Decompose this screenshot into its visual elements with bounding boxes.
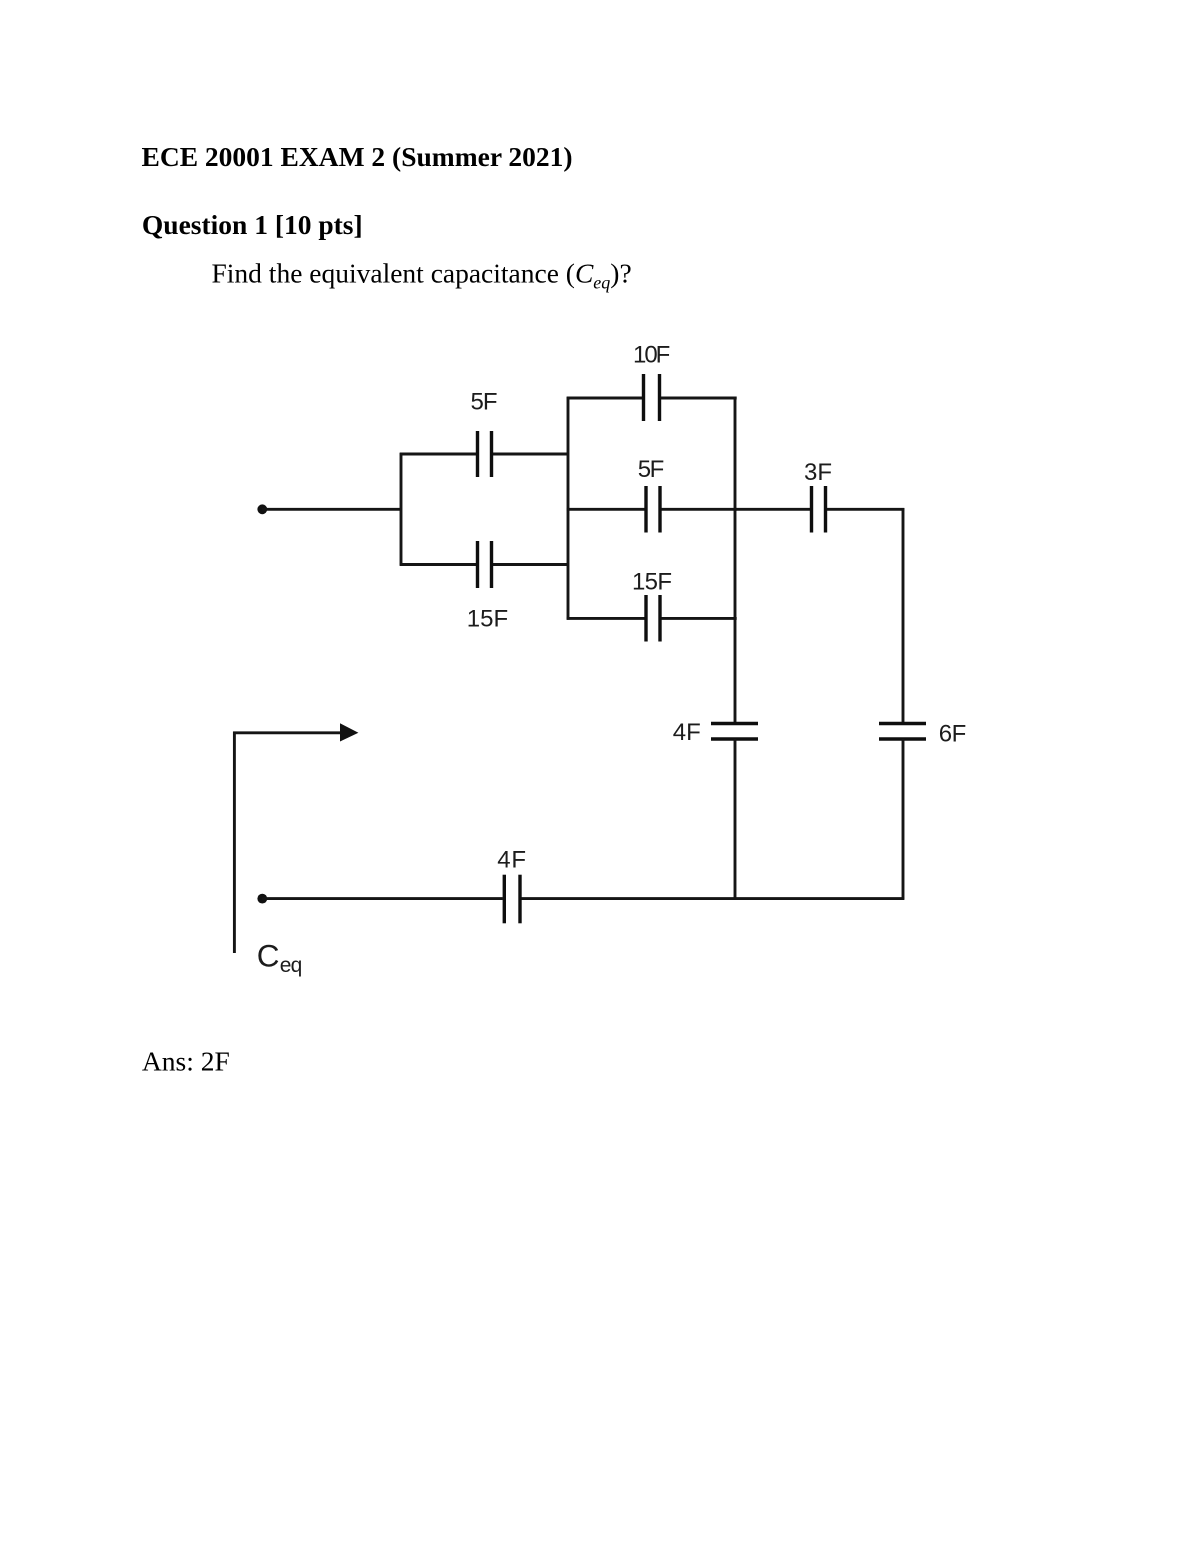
- wire : x=903 bus lower part down to bottom wire: [902, 739, 905, 900]
- svg-text:5F: 5F: [471, 389, 498, 416]
- capacitor 15F (bottom-middle branch) plates: [644, 595, 647, 642]
- svg-text:Question 1 [10 pts]: Question 1 [10 pts]: [142, 209, 363, 240]
- capacitor 5F (top-left branch) plates: [476, 431, 479, 477]
- svg-text:ECE 20001 EXAM 2 (Summer 2021): ECE 20001 EXAM 2 (Summer 2021): [142, 141, 573, 172]
- capacitor 6F (shunt on x=903) plates: [879, 722, 926, 725]
- wire : input lead from node A to left parallel block: [262, 508, 401, 511]
- wire : 3F series branch (y=509.3) left segment: [735, 508, 810, 511]
- svg-text:4F: 4F: [497, 846, 526, 873]
- wire : middle branch (y=509.3) left segment: [567, 508, 645, 511]
- capacitor 4F (shunt on x=735) plates: [711, 722, 758, 725]
- svg-text:3F: 3F: [804, 459, 832, 486]
- wire : bottom return wire (y=898.6) left segment: [262, 897, 503, 900]
- svg-text:Find the equivalent capacitanc: Find the equivalent capacitance (Ceq)?: [212, 258, 632, 293]
- capacitor 5F (middle branch) plates: [644, 486, 647, 533]
- wire : left block left vertical bus x=401: [400, 453, 403, 566]
- wire : middle branch (y=509.3) right segment to right bus: [662, 508, 737, 511]
- wire : 3F series branch (y=509.3) right segment: [827, 508, 904, 511]
- wire : bottom-left branch (y=564.5) right segment: [493, 563, 569, 566]
- svg-text:15F: 15F: [632, 569, 672, 596]
- wire : bottom-middle branch (y=618.4) left segment: [567, 617, 645, 620]
- wire : bottom-middle branch (y=618.4) right segment: [662, 617, 737, 620]
- node B : bottom terminal dot: [257, 894, 267, 904]
- wire : bottom return wire (y=898.6) right segment: [522, 897, 905, 900]
- wire : top-middle branch (y=398) right segment: [661, 397, 737, 400]
- wire : Ceq indicator horizontal line with arrowhead: [233, 731, 342, 734]
- svg-text:C: C: [257, 937, 280, 973]
- svg-text:15F: 15F: [467, 606, 509, 633]
- wire : bottom-left branch (y=564.5) left segment: [400, 563, 476, 566]
- wire : Ceq indicator vertical line: [233, 732, 236, 954]
- capacitor 3F plates: [810, 486, 813, 533]
- svg-text:10F: 10F: [633, 342, 670, 369]
- wire : top-middle branch (y=398) left segment: [567, 397, 642, 400]
- capacitor 10F plates: [642, 374, 645, 421]
- wire : top-left branch (y=454) left segment: [400, 453, 476, 456]
- wire : middle block left vertical bus x=568: [567, 397, 570, 620]
- capacitor 15F (bottom-left branch) plates: [476, 541, 479, 588]
- wire : top-left branch (y=454) right segment: [493, 453, 569, 456]
- wire : right vertical bus x=903 upper part: [902, 508, 905, 724]
- capacitor 4F (bottom series) plates: [503, 875, 506, 924]
- svg-text:4F: 4F: [673, 719, 701, 746]
- node A : input terminal dot (top left): [257, 504, 267, 514]
- svg-text:Ans: 2F: Ans: 2F: [142, 1045, 230, 1076]
- svg-text:eq: eq: [280, 954, 303, 977]
- svg-text:5F: 5F: [638, 456, 665, 483]
- svg-text:6F: 6F: [939, 720, 967, 747]
- wire : x=735 bus lower part down to bottom wire: [734, 739, 737, 900]
- wire : middle block right vertical bus x=735 upper part: [734, 397, 737, 724]
